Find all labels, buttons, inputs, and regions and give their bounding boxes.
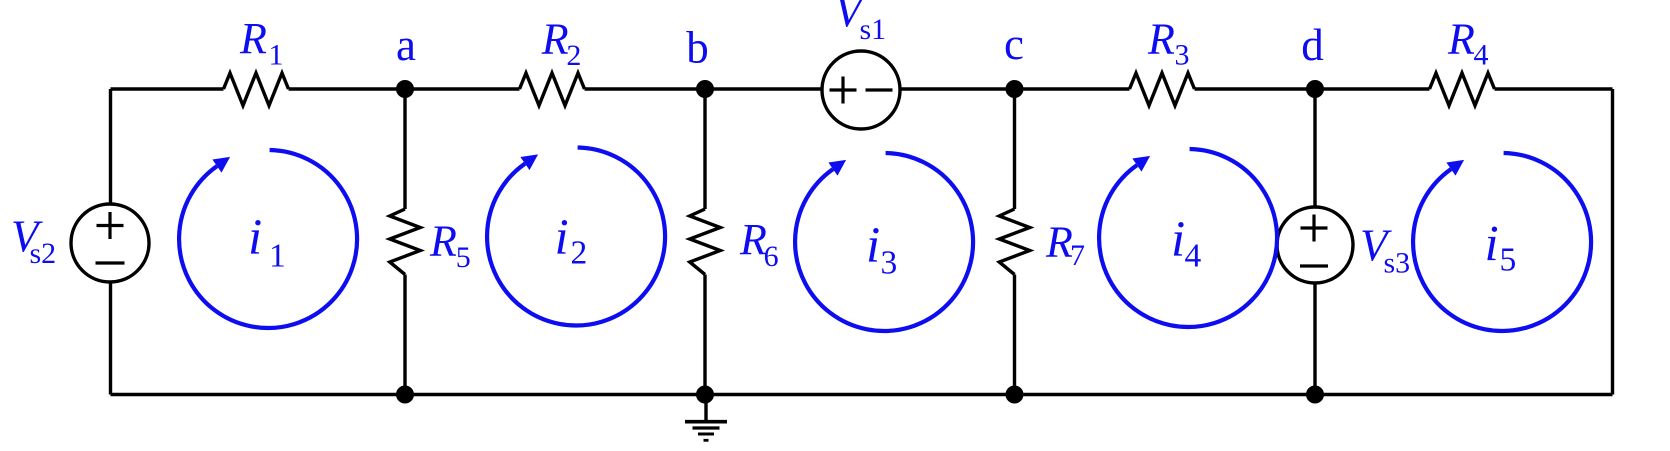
resistor R6: [690, 209, 721, 275]
voltage source Vs3 circle: [1277, 207, 1353, 283]
resistor R7: [999, 209, 1030, 275]
bottom junction dot below a: [396, 386, 414, 404]
svg-text:i: i: [248, 210, 262, 266]
mesh i2 arrowhead: [520, 154, 538, 170]
svg-text:d: d: [1301, 20, 1324, 70]
mesh current loop i2 arc: [487, 148, 665, 326]
svg-text:7: 7: [1070, 239, 1085, 272]
ground bar 3: [698, 433, 714, 436]
svg-text:i: i: [555, 210, 569, 266]
svg-text:R: R: [239, 14, 267, 63]
svg-text:s3: s3: [1384, 247, 1411, 280]
svg-text:R: R: [541, 15, 569, 64]
node d top junction dot: [1306, 80, 1324, 98]
svg-text:2: 2: [566, 39, 581, 72]
svg-text:s1: s1: [860, 13, 887, 46]
svg-text:1: 1: [269, 238, 286, 275]
wire node a to R2: [405, 87, 520, 90]
wire branch a lower: [403, 275, 406, 395]
Vs1 minus sign: [866, 88, 893, 91]
svg-text:R: R: [1045, 218, 1073, 267]
svg-text:R: R: [1147, 15, 1175, 64]
Vs2 minus sign: [96, 261, 125, 264]
wire node d to R4: [1315, 87, 1430, 90]
wire left edge upper: [109, 89, 112, 204]
node a top junction dot: [396, 80, 414, 98]
svg-text:R: R: [1447, 15, 1475, 64]
resistor R1: [224, 73, 289, 106]
svg-text:1: 1: [269, 39, 284, 72]
mesh current loop i1 arc: [179, 150, 357, 328]
svg-text:i: i: [1485, 217, 1499, 273]
mesh current loop i3 arc: [795, 153, 973, 331]
wire bottom rail: [111, 393, 1613, 396]
resistor R3: [1130, 73, 1195, 106]
voltage source Vs1 circle: [822, 51, 900, 129]
wire branch a upper: [403, 89, 406, 209]
svg-text:4: 4: [1185, 238, 1202, 275]
wire right edge: [1611, 89, 1614, 395]
svg-text:6: 6: [764, 240, 779, 273]
svg-text:3: 3: [881, 245, 898, 282]
bottom junction dot below c: [1006, 386, 1024, 404]
svg-text:3: 3: [1175, 39, 1190, 72]
svg-text:4: 4: [1474, 39, 1489, 72]
node c top junction dot: [1006, 80, 1024, 98]
resistor R5: [390, 209, 421, 275]
Vs3 minus sign: [1300, 264, 1328, 267]
svg-text:s2: s2: [30, 237, 57, 270]
wire left edge lower: [109, 282, 112, 395]
wire R3 to node d: [1195, 87, 1316, 90]
wire branch d lower: [1313, 283, 1316, 395]
mesh i4 arrowhead: [1132, 156, 1150, 172]
node b top junction dot: [696, 80, 714, 98]
svg-text:i: i: [1171, 212, 1185, 268]
svg-text:a: a: [396, 20, 416, 70]
mesh i3 arrowhead: [828, 160, 846, 176]
wire branch c lower: [1013, 275, 1016, 395]
svg-text:i: i: [866, 218, 880, 274]
voltage source Vs2 circle: [71, 204, 149, 282]
wire node c to R3: [1015, 87, 1130, 90]
wire top rail: left corner to R1: [111, 87, 224, 90]
wire R2 to node b: [585, 87, 706, 90]
wire branch b upper: [703, 89, 706, 209]
bottom junction dot below b (ground node): [696, 386, 714, 404]
svg-text:5: 5: [1500, 242, 1517, 279]
svg-text:5: 5: [456, 241, 471, 274]
wire Vs1 to node c: [900, 87, 1015, 90]
resistor R4: [1430, 73, 1495, 106]
ground stub wire: [704, 395, 707, 422]
svg-text:b: b: [686, 23, 709, 73]
wire branch d upper: [1313, 89, 1316, 207]
wire branch c upper: [1013, 89, 1016, 209]
resistor R2: [520, 73, 585, 106]
svg-text:R: R: [429, 217, 457, 266]
wire node b to Vs1: [705, 87, 823, 90]
mesh current loop i4 arc: [1099, 149, 1277, 327]
ground bar 2: [693, 426, 720, 429]
bottom junction dot below d: [1306, 386, 1324, 404]
ground bar 1: [685, 420, 727, 424]
wire R4 to top right corner: [1495, 87, 1613, 90]
svg-text:2: 2: [571, 235, 588, 272]
wire branch b lower: [703, 275, 706, 395]
Vs1 plus sign: [830, 77, 857, 104]
mesh i1 arrowhead: [212, 157, 230, 173]
ground bar 4: [704, 439, 709, 442]
mesh i5 arrowhead: [1446, 160, 1464, 176]
Vs2 plus sign: [97, 212, 124, 239]
Vs3 plus sign: [1301, 215, 1328, 242]
svg-text:c: c: [1004, 19, 1024, 69]
wire R1 to node a: [289, 87, 406, 90]
mesh current loop i5 arc: [1413, 153, 1591, 331]
